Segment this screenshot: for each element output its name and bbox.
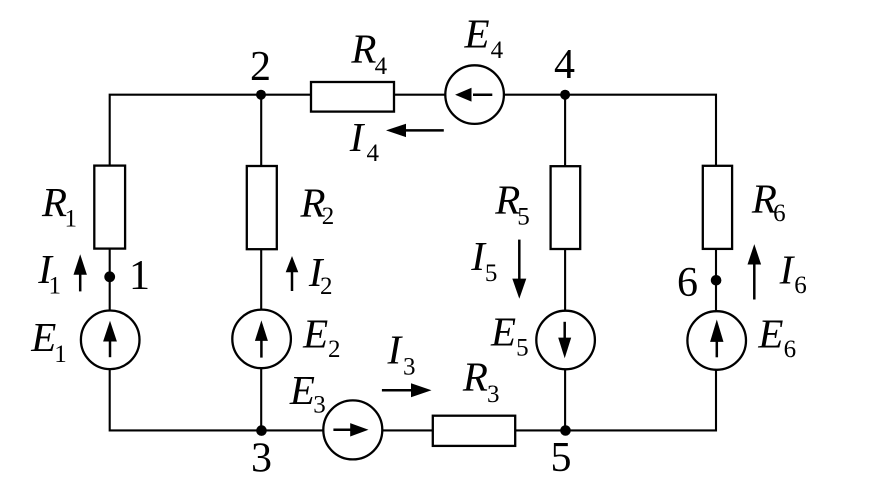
- svg-text:4: 4: [491, 37, 504, 64]
- label I4: [349, 114, 380, 167]
- label I2: [308, 249, 333, 300]
- svg-text:2: 2: [250, 44, 271, 90]
- label R4: [350, 25, 387, 80]
- node 2 junction dot: [256, 90, 266, 100]
- wire R4 to E4: [394, 94, 445, 96]
- node 3 junction dot: [256, 425, 267, 436]
- node 6 junction dot: [711, 275, 722, 286]
- label I5: [470, 233, 497, 287]
- resistor R1: [94, 166, 125, 249]
- svg-text:6: 6: [773, 200, 786, 227]
- svg-text:R: R: [462, 354, 488, 400]
- svg-text:I: I: [349, 114, 366, 160]
- label E2: [302, 311, 340, 363]
- wire R1 to E1 through node 1: [109, 249, 111, 311]
- svg-text:E: E: [30, 314, 56, 360]
- resistor R4: [311, 82, 394, 112]
- svg-text:R: R: [350, 25, 376, 71]
- wire E3 to R3: [382, 429, 433, 431]
- source E6 circle: [687, 311, 746, 370]
- label I6: [779, 246, 807, 299]
- svg-text:E: E: [302, 311, 328, 357]
- svg-text:5: 5: [551, 435, 572, 477]
- wire E5 to node 5: [564, 369, 566, 430]
- wire E4 to top-right corner down to R6: [504, 95, 716, 166]
- svg-text:E: E: [289, 367, 315, 413]
- label E1: [30, 314, 66, 368]
- source E2 circle: [232, 310, 291, 369]
- svg-text:6: 6: [794, 272, 807, 299]
- wire R3 along bottom to bottom-right corner up to E6: [515, 370, 716, 431]
- label E3: [289, 367, 326, 418]
- resistor R3: [433, 416, 515, 446]
- wire node 2 to R2: [260, 95, 262, 166]
- svg-text:3: 3: [403, 354, 416, 381]
- current arrow I5: [512, 240, 526, 299]
- node 1 junction dot: [104, 271, 115, 282]
- label E6: [757, 311, 796, 364]
- label R6: [751, 176, 786, 228]
- label I1: [37, 246, 61, 299]
- svg-text:R: R: [41, 179, 67, 225]
- source E3 arrow: [333, 423, 368, 436]
- label E5: [490, 309, 529, 362]
- source E4 arrow: [455, 88, 492, 102]
- label I3: [387, 326, 416, 380]
- label R2: [300, 179, 335, 230]
- svg-text:5: 5: [485, 260, 498, 287]
- svg-text:3: 3: [487, 381, 500, 408]
- svg-text:5: 5: [517, 204, 530, 231]
- svg-text:4: 4: [554, 42, 575, 88]
- svg-text:3: 3: [313, 391, 326, 418]
- source E5 arrow: [558, 322, 571, 359]
- resistor R6: [703, 166, 732, 249]
- source E2 arrow: [255, 320, 268, 357]
- svg-text:I: I: [779, 246, 796, 292]
- svg-text:2: 2: [322, 203, 335, 230]
- current arrow I4: [386, 124, 444, 137]
- current arrow I2: [286, 256, 299, 291]
- source E6 arrow: [710, 320, 723, 358]
- resistor R5: [551, 166, 581, 249]
- node 5 junction dot: [560, 425, 571, 436]
- svg-text:4: 4: [367, 140, 380, 167]
- label R1: [41, 179, 77, 233]
- svg-text:6: 6: [784, 336, 797, 363]
- svg-text:1: 1: [129, 253, 150, 299]
- svg-text:I: I: [387, 326, 404, 372]
- node 4 junction dot: [560, 90, 570, 100]
- source E3 circle: [323, 400, 382, 459]
- svg-text:1: 1: [49, 273, 62, 300]
- svg-text:2: 2: [320, 273, 333, 300]
- svg-text:3: 3: [251, 436, 272, 477]
- label R5: [494, 177, 530, 231]
- current arrow I6: [748, 244, 762, 299]
- source E1 arrow: [103, 321, 117, 358]
- source E1 circle: [81, 311, 140, 370]
- svg-text:4: 4: [375, 53, 388, 80]
- source E5 circle: [536, 311, 595, 370]
- svg-text:E: E: [464, 10, 490, 56]
- wire node 4 to R5: [564, 95, 566, 167]
- svg-text:6: 6: [677, 260, 698, 306]
- svg-text:E: E: [757, 311, 783, 357]
- svg-text:2: 2: [328, 336, 341, 363]
- wire E2 to node 3: [260, 368, 262, 430]
- wire R6 to E6 through node 6: [715, 249, 717, 311]
- svg-text:E: E: [490, 309, 516, 355]
- svg-text:1: 1: [54, 341, 66, 368]
- wire left branch top corner across to R4: [110, 95, 311, 166]
- current arrow I3: [382, 383, 432, 397]
- current arrow I1: [74, 254, 87, 291]
- source E4 circle: [445, 65, 504, 124]
- label R3: [462, 354, 500, 408]
- wire R5 to E5: [564, 249, 566, 311]
- svg-text:5: 5: [516, 335, 529, 362]
- resistor R2: [247, 166, 277, 249]
- wire R2 to E2: [260, 249, 262, 309]
- wire E1 to bottom-left corner across to E3: [110, 369, 324, 430]
- svg-text:1: 1: [65, 206, 78, 233]
- label E4: [464, 10, 504, 64]
